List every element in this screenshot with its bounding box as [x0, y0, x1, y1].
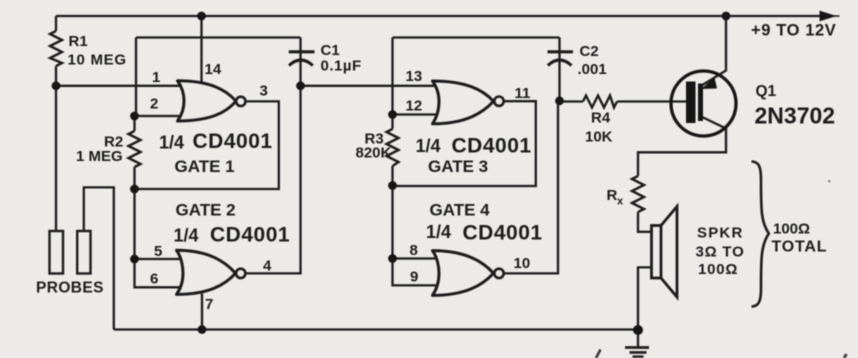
svg-text:Q1: Q1: [756, 83, 777, 100]
svg-text:CD4001: CD4001: [193, 130, 273, 153]
svg-text:8: 8: [410, 242, 418, 259]
svg-text:1/4: 1/4: [174, 226, 199, 246]
svg-text:R: R: [607, 187, 618, 204]
svg-text:CD4001: CD4001: [452, 135, 532, 158]
svg-text:10K: 10K: [585, 129, 613, 146]
svg-text:5: 5: [154, 243, 162, 260]
svg-text:10 MEG: 10 MEG: [68, 52, 127, 69]
svg-text:100Ω: 100Ω: [773, 221, 810, 238]
svg-text:820K: 820K: [356, 145, 392, 162]
svg-text:R1: R1: [69, 33, 88, 50]
svg-text:14: 14: [205, 61, 222, 78]
svg-text:GATE 1: GATE 1: [175, 157, 235, 176]
svg-text:GATE 4: GATE 4: [430, 201, 491, 220]
svg-text:2: 2: [150, 96, 158, 113]
svg-text:x: x: [617, 196, 624, 208]
svg-text:2N3702: 2N3702: [755, 103, 836, 129]
svg-text:1: 1: [152, 69, 160, 86]
svg-text:6: 6: [150, 271, 158, 288]
svg-text:11: 11: [515, 85, 531, 102]
svg-text:3Ω TO: 3Ω TO: [696, 244, 745, 261]
svg-text:GATE 2: GATE 2: [176, 201, 236, 220]
svg-text:CD4001: CD4001: [210, 224, 290, 247]
svg-text:9: 9: [410, 269, 418, 286]
svg-text:1/4: 1/4: [426, 222, 451, 242]
svg-text:10: 10: [514, 255, 531, 272]
svg-text:SPKR: SPKR: [697, 225, 743, 242]
svg-text:C2: C2: [580, 43, 599, 60]
svg-text:100Ω: 100Ω: [698, 261, 738, 278]
svg-text:+9 TO 12V: +9 TO 12V: [751, 22, 836, 40]
svg-text:4: 4: [263, 258, 272, 275]
svg-text:PROBES: PROBES: [36, 280, 104, 297]
svg-text:CD4001: CD4001: [463, 222, 543, 245]
svg-text:1/4: 1/4: [416, 136, 441, 156]
svg-text:GATE 3: GATE 3: [428, 157, 488, 176]
svg-text:R4: R4: [591, 110, 611, 127]
svg-text:1 MEG: 1 MEG: [76, 148, 123, 165]
svg-text:12: 12: [406, 98, 423, 115]
svg-text:1/4: 1/4: [159, 133, 184, 153]
svg-text:0.1µF: 0.1µF: [321, 58, 362, 75]
svg-text:3: 3: [260, 83, 268, 100]
svg-text:TOTAL: TOTAL: [772, 239, 828, 256]
svg-text:7: 7: [205, 296, 213, 313]
svg-text:.001: .001: [578, 61, 607, 78]
svg-text:C1: C1: [321, 42, 340, 59]
svg-text:13: 13: [406, 68, 423, 85]
